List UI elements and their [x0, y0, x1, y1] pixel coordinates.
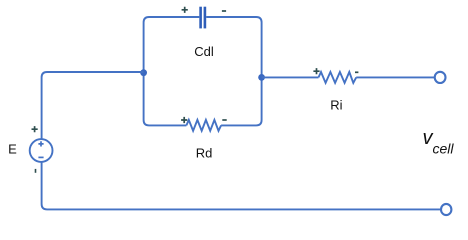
wire: E source to bottom rail and bottom rail to terminal — [42, 162, 441, 210]
wire: E source to left junction — [42, 72, 144, 139]
polarity sign: Rd plus — [181, 117, 187, 123]
svg-text:Cdl: Cdl — [194, 44, 214, 59]
junction node right — [258, 74, 265, 81]
polarity sign: capacitor minus — [222, 10, 226, 12]
svg-text:Ri: Ri — [330, 98, 342, 113]
wire: Ri to top terminal — [356, 76, 435, 78]
svg-text:E: E — [8, 142, 17, 157]
polarity sign: Ri plus — [313, 68, 319, 74]
junction node left — [140, 69, 147, 76]
svg-text:vcell: vcell — [423, 127, 455, 157]
capacitor Cdl plates — [199, 7, 206, 29]
resistor Ri zigzag — [319, 72, 357, 83]
source internal plus — [38, 141, 43, 146]
voltage source E circle — [30, 139, 53, 162]
wire: loop right side (bottom-right lead, right vertical, top-right corner) — [206, 17, 261, 125]
wire: right junction to Ri — [262, 76, 319, 78]
terminal: bottom output port — [441, 204, 451, 215]
polarity sign: capacitor plus — [182, 7, 188, 13]
polarity sign: E external minus — [35, 169, 37, 173]
terminal: top output port — [435, 72, 446, 83]
polarity sign: E external plus — [32, 126, 38, 132]
polarity sign: Ri minus — [355, 71, 358, 73]
resistor Rd zigzag — [186, 120, 221, 131]
source internal minus — [38, 156, 43, 158]
polarity sign: Rd minus — [222, 119, 226, 121]
wire: loop left side (top-left corner, left vertical, bottom-left lead) — [144, 17, 200, 125]
svg-text:Rd: Rd — [196, 146, 213, 161]
